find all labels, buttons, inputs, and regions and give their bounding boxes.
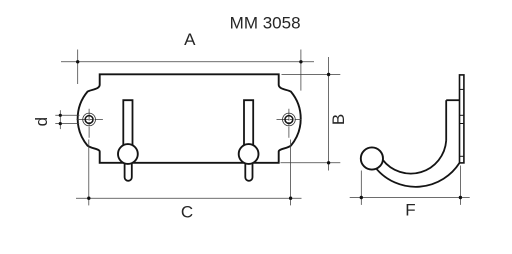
svg-text:F: F — [405, 201, 415, 220]
svg-text:B: B — [329, 114, 348, 125]
svg-text:MM 3058: MM 3058 — [230, 14, 301, 33]
svg-text:d: d — [32, 117, 51, 126]
svg-text:C: C — [181, 202, 193, 221]
svg-text:A: A — [184, 30, 196, 49]
